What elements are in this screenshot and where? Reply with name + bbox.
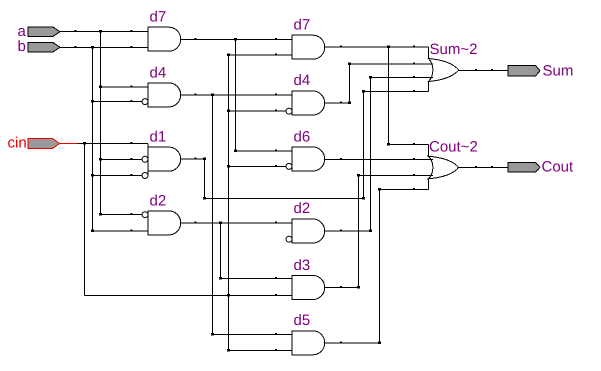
node d4-out junctions [195, 93, 278, 335]
and-gate d7 (col2) [292, 35, 325, 59]
node a junctions [75, 30, 133, 216]
wire d5-out entry leg Cout~2.in4 [428, 179, 430, 190]
and-gate d4 (col2) [292, 91, 325, 115]
wire net-b branch to d1.in3 [93, 175, 143, 177]
wire d4b-out vertical up [349, 64, 351, 103]
node b junctions [75, 46, 133, 232]
bubble d1 input3 [142, 173, 148, 179]
wire d4b-out stub [325, 102, 350, 104]
wire net-b branch to d4.in2 [93, 101, 143, 103]
wire net-cin bottom horizontal to d3.in2 [85, 295, 293, 297]
wire net-cin riser vertical [228, 55, 230, 350]
wire d6-out to Cout~2.in2 [325, 159, 433, 161]
svg-text:d7: d7 [150, 9, 167, 26]
bubble d6 input2 [286, 163, 292, 169]
wire net-b branch to d2.in2 [93, 230, 149, 232]
node d4b-out junctions [340, 62, 415, 104]
wire d2b-out vertical up [370, 77, 372, 231]
wire d4-out branch to d5.in1 [213, 334, 293, 336]
wire net-a vertical V1 [100, 32, 102, 215]
wire net-cin branch to d6.in2 [229, 165, 287, 167]
svg-text:Cout: Cout [542, 159, 575, 176]
wire d7-out to d7b.in1 [181, 38, 292, 40]
wire d1-out entry leg Sum~2.in4 [428, 82, 430, 92]
output pin Cout [508, 163, 540, 173]
svg-text:d4: d4 [150, 65, 167, 82]
wire net-b vertical V2 [92, 48, 94, 231]
or-gate Cout~2 [428, 156, 458, 179]
node d2-out junctions [195, 221, 278, 279]
wire d5-out stub [325, 342, 380, 344]
wire d7b-out entry leg Cout~2.in1 [428, 145, 430, 157]
bubble d2-col1 input1 [142, 212, 148, 218]
wire net-a branch to d1.in2 [101, 158, 143, 160]
wire d2b-out horizontal to Sum~2.in3 [371, 76, 434, 78]
svg-text:d2: d2 [150, 193, 167, 210]
wire d7-out branch to d6.in1 [236, 150, 293, 152]
wire net-a branch to d2.in1 [101, 214, 143, 216]
svg-text:Cout~2: Cout~2 [429, 139, 478, 156]
wire d1-out stub [181, 158, 205, 160]
bubble d4-col2 input2 [286, 108, 292, 114]
node d3-out junctions [340, 174, 415, 289]
and-gate d1 (col1) [148, 143, 181, 175]
wire d7b-out branch horizontal to Cout~2.in1 [389, 144, 429, 146]
node d5-out junctions [340, 188, 415, 344]
wire d2-out branch to d3.in1 [221, 278, 293, 280]
wire net-b horizontal to d7.in2 [60, 47, 148, 49]
wire d2b-out stub [325, 230, 371, 232]
wire d5-out horizontal to Cout~2.in4 [380, 189, 429, 191]
svg-text:Sum: Sum [543, 63, 574, 80]
input pin a [28, 27, 60, 37]
wire d1-out vertical down [204, 159, 206, 198]
and-gate d3 (col2) [292, 276, 325, 300]
wire net-cin branch to d5.in2 [229, 350, 293, 352]
svg-text:d1: d1 [150, 129, 167, 146]
wire d7b-out vertical branch to Cout [388, 47, 390, 144]
node d2b-out junctions [340, 76, 415, 232]
svg-text:d6: d6 [294, 129, 311, 146]
svg-text:cin: cin [8, 135, 27, 152]
wire net-a branch to d4.in1 [101, 86, 149, 88]
node d7-out junctions [195, 38, 278, 152]
svg-text:b: b [18, 38, 26, 55]
wire d3-out vertical up [358, 175, 360, 287]
wire d2-out vertical branch [220, 223, 222, 279]
output pin Sum [508, 66, 540, 77]
bubble d1 input2 [142, 156, 148, 162]
node d6-out junctions [340, 158, 415, 160]
and-gate d7 (col1) [148, 27, 181, 51]
and-gate d5 (col2) [292, 331, 325, 355]
wire d3-out horizontal to Cout~2.in3 [359, 174, 434, 176]
wire Cout~2 output to pin Cout [459, 166, 509, 168]
and-gate d2 (col2) [292, 219, 325, 243]
wire Sum~2 output to pin Sum [459, 69, 509, 71]
wire d3-out stub [325, 286, 359, 288]
wire d1-out vertical up to Sum input [363, 91, 365, 198]
wire d5-out vertical up [379, 190, 381, 343]
node d1-out junctions [195, 90, 415, 199]
wire net-a horizontal to d7.in1 [60, 31, 148, 33]
wire d1-out long horizontal [205, 197, 364, 199]
node cin junctions [83, 54, 277, 352]
node Sum-out dots [475, 69, 493, 71]
bubble d4-col1 input2 [142, 99, 148, 105]
wire d4b-out horizontal to Sum~2.in2 [350, 63, 434, 65]
node d7b-out junctions [340, 46, 415, 146]
svg-text:d7: d7 [294, 17, 311, 34]
wire d4-out vertical branch [212, 95, 214, 335]
svg-text:d2: d2 [294, 200, 311, 217]
wire d1-out horizontal to Sum~2.in4 [364, 90, 429, 92]
wire net-cin horizontal to d1.in1 [78, 142, 149, 144]
and-gate d4 (col1) [148, 83, 181, 107]
wire d4-out to d4b.in1 [181, 94, 292, 96]
wire net-cin vertical V3 [84, 143, 86, 295]
wire d7b-out entry leg Sum~2.in1 [428, 47, 430, 58]
svg-text:d4: d4 [294, 72, 311, 89]
svg-text:d3: d3 [294, 257, 311, 274]
and-gate d6 (col2) [292, 147, 325, 171]
svg-text:d5: d5 [294, 312, 311, 329]
and-gate d2 (col1) [148, 211, 181, 235]
wire d2-out to d2b.in1 [181, 222, 292, 224]
or-gate Sum~2 [428, 59, 458, 82]
input pin b [28, 43, 60, 53]
node Cout-out dots [475, 166, 493, 168]
svg-text:Sum~2: Sum~2 [430, 41, 478, 58]
input pin cin [28, 139, 60, 149]
wire d7b-out to Sum~2.in1 [325, 46, 429, 48]
wire net-cin branch to d4b.in2 [229, 110, 287, 112]
bubble d2-col2 input2 [286, 236, 292, 242]
wire net-cin branch to d7b.in2 [229, 54, 293, 56]
wire net-cin red segment from pin [60, 142, 78, 144]
wire d7-out vertical branch [235, 39, 237, 150]
